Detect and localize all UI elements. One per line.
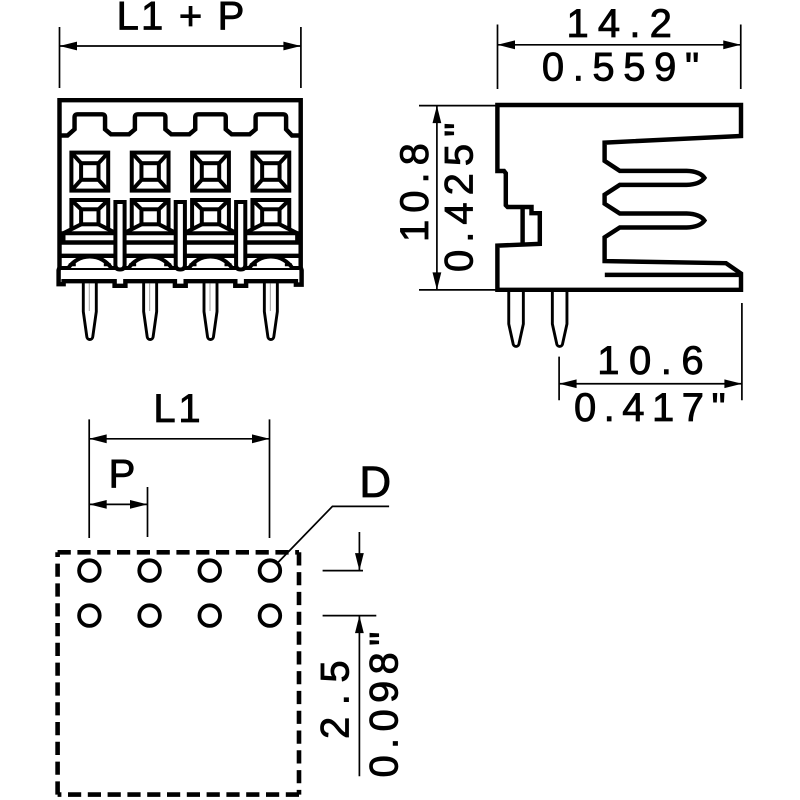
front view solder dome 1 bbox=[68, 257, 111, 268]
svg-text:0.559": 0.559" bbox=[542, 46, 708, 90]
drill hole row 2 col 1 bbox=[79, 605, 100, 626]
svg-text:14.2: 14.2 bbox=[566, 2, 681, 46]
front view lower square contact 4 with pedestal bbox=[245, 200, 298, 243]
drilling plan dashed board outline bbox=[58, 552, 299, 794]
drill hole row 2 col 2 bbox=[139, 605, 160, 626]
front view solder dome 2 bbox=[129, 257, 172, 268]
front view lower square contact 1 with pedestal bbox=[64, 200, 117, 243]
side view solder pin B bbox=[552, 290, 567, 347]
svg-text:2.5: 2.5 bbox=[314, 649, 358, 739]
leader line for hole diameter D bbox=[278, 506, 389, 562]
front view mounting rail band bbox=[61, 243, 299, 256]
front view separator bar 1 bbox=[115, 202, 124, 270]
svg-text:10.6: 10.6 bbox=[597, 339, 713, 383]
front view separator bar 2 bbox=[176, 202, 185, 270]
svg-text:10.8: 10.8 bbox=[393, 136, 437, 242]
dimension P line with arrows bbox=[89, 503, 147, 505]
drill hole row 2 col 3 bbox=[199, 605, 220, 626]
dimension 14.2 extension lines bbox=[498, 25, 741, 90]
svg-text:P: P bbox=[109, 453, 136, 497]
side view connector body outline bbox=[497, 105, 741, 290]
front view top castellation contour bbox=[60, 114, 301, 135]
dimension 2.5 line with arrows bbox=[358, 532, 360, 776]
front view solder dome 4 bbox=[249, 257, 292, 268]
front view solder pin 2 bbox=[144, 281, 157, 340]
front view solder dome 3 bbox=[189, 257, 232, 268]
dimension 10.6 line with arrows bbox=[559, 383, 742, 385]
dimension L1 extension lines bbox=[89, 419, 269, 538]
svg-text:L1: L1 bbox=[153, 387, 203, 431]
front view upper square contact 2 bbox=[132, 153, 169, 191]
svg-text:0.425": 0.425" bbox=[438, 116, 482, 272]
dimension 10.6 extension lines bbox=[559, 303, 742, 400]
front view solder pin 4 bbox=[264, 281, 277, 340]
dimension 14.2 line with arrows bbox=[498, 44, 741, 46]
front view upper square contact 1 bbox=[71, 153, 108, 191]
front view upper square contact 3 bbox=[192, 153, 229, 191]
drill hole row 1 col 1 bbox=[79, 560, 100, 581]
drill hole row 1 col 3 bbox=[199, 560, 220, 581]
dimension L1 line with arrows bbox=[89, 438, 269, 440]
front view solder pin 1 bbox=[83, 281, 96, 340]
front view solder-side baseline bbox=[61, 266, 299, 270]
svg-text:0.098": 0.098" bbox=[363, 625, 407, 777]
dimension L1 + P extension lines bbox=[60, 27, 301, 88]
side view latch tab inner line bbox=[520, 207, 524, 245]
front view connector body outline bbox=[59, 100, 302, 286]
front view separator bar 3 bbox=[236, 202, 245, 270]
dimension 10.8 line with arrows bbox=[436, 106, 438, 290]
dimension 2.5 extension lines bbox=[323, 571, 377, 616]
svg-text:D: D bbox=[359, 458, 391, 507]
front view upper square contact 4 bbox=[252, 153, 289, 191]
front view lower square contact 3 with pedestal bbox=[184, 200, 237, 243]
side view solder pin A bbox=[509, 290, 524, 347]
dimension 10.8 extension lines bbox=[419, 106, 496, 290]
front view solder pin 3 bbox=[204, 281, 217, 340]
drill hole row 2 col 4 bbox=[260, 605, 281, 626]
drill hole row 1 col 2 bbox=[139, 560, 160, 581]
front view lower square contact 2 with pedestal bbox=[124, 200, 177, 243]
drill hole row 1 col 4 bbox=[260, 560, 281, 581]
svg-text:0.417": 0.417" bbox=[574, 386, 733, 430]
dimension L1 + P line with arrows bbox=[60, 45, 301, 47]
dimension P extension line bbox=[147, 487, 149, 537]
svg-text:L1 + P: L1 + P bbox=[117, 0, 247, 39]
side view shroud lower arm inner edge bbox=[605, 273, 740, 277]
